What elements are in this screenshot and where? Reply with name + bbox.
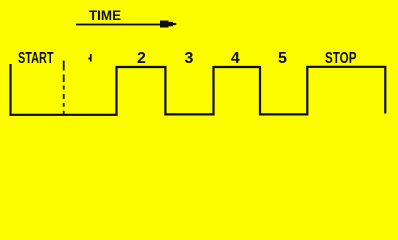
svg-text:START: START — [18, 50, 54, 67]
svg-text:TIME: TIME — [89, 8, 121, 23]
svg-text:5: 5 — [278, 50, 287, 67]
svg-text:3: 3 — [185, 50, 194, 67]
svg-text:STOP: STOP — [325, 50, 357, 67]
svg-text:2: 2 — [137, 50, 146, 67]
svg-text:4: 4 — [231, 50, 240, 67]
